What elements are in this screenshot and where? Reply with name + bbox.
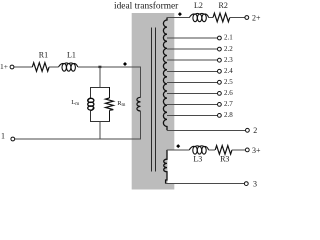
svg-text:3+: 3+ — [252, 146, 261, 155]
terminal 1+ circle — [10, 65, 14, 69]
resistor R1 — [32, 63, 49, 72]
wire: 1+ terminal to R1 — [14, 66, 32, 68]
svg-text:1: 1 — [1, 132, 5, 141]
inductor Lm — [88, 98, 94, 110]
tap 2.3 — [167, 56, 233, 64]
wire: W2 top to L2 — [167, 17, 189, 19]
svg-text:2.6: 2.6 — [224, 89, 233, 97]
terminal 2+ circle — [245, 16, 249, 20]
svg-text:2.3: 2.3 — [224, 56, 233, 64]
svg-text:Rm: Rm — [117, 100, 125, 108]
shunt bottom bar — [90, 121, 110, 123]
resistor Rm — [106, 87, 114, 122]
svg-text:R2: R2 — [219, 1, 228, 10]
svg-text:2.2: 2.2 — [224, 45, 233, 53]
resistor R2 — [213, 13, 230, 22]
inductor L1 — [59, 63, 78, 71]
phase dot W2 — [178, 12, 182, 16]
primary winding lead top — [140, 67, 142, 98]
svg-text:L3: L3 — [193, 155, 202, 164]
wire: L3 to R3 — [209, 149, 216, 151]
shunt top bar — [90, 87, 110, 89]
wire: R2 to terminal 2+ — [230, 17, 246, 19]
svg-text:2.5: 2.5 — [224, 78, 233, 86]
Lm branch upper lead — [89, 87, 91, 98]
svg-text:R1: R1 — [39, 51, 48, 60]
svg-text:2+: 2+ — [252, 13, 261, 22]
svg-text:ideal transformer: ideal transformer — [114, 0, 179, 11]
core line right — [154, 28, 156, 172]
primary winding W1 — [137, 97, 141, 111]
inductor L3 — [189, 146, 208, 154]
core line left — [150, 28, 152, 172]
tap 2.8 — [167, 111, 233, 119]
inductor L2 — [189, 13, 208, 21]
winding W3 white backing — [168, 150, 176, 183]
junction A — [98, 66, 101, 68]
svg-text:2.8: 2.8 — [224, 111, 233, 119]
phase dot primary — [123, 62, 127, 66]
wire: W3 bottom to terminal 3 — [166, 183, 245, 185]
terminal 1 circle — [11, 137, 15, 141]
svg-text:Lm: Lm — [71, 99, 79, 107]
wire: R1 to L1 — [49, 66, 58, 68]
primary winding lead bottom — [140, 111, 142, 139]
svg-text:3: 3 — [253, 180, 257, 189]
tap 2.6 — [167, 89, 233, 97]
phase dot W3 — [176, 144, 180, 148]
svg-text:L1: L1 — [67, 51, 76, 60]
terminal 2 circle — [246, 128, 250, 132]
tap 2.4 — [167, 67, 233, 75]
terminal 3+ circle — [245, 148, 249, 152]
svg-text:1+: 1+ — [0, 62, 8, 71]
tap 2.5 — [167, 78, 233, 86]
svg-text:2.4: 2.4 — [224, 67, 233, 75]
shunt branch feed wire top — [99, 67, 101, 88]
wire: bottom return to terminal 1 — [15, 138, 141, 140]
wire: L2 to R2 — [209, 17, 213, 19]
resistor R3 — [215, 146, 232, 155]
svg-text:2.7: 2.7 — [224, 100, 233, 108]
wire: W3 top to L3 — [167, 149, 189, 151]
terminal 3 circle — [244, 182, 248, 186]
wire: R3 to terminal 3+ — [232, 149, 245, 151]
wire: W2 bottom to terminal 2 — [167, 129, 246, 131]
tap 2.7 — [167, 100, 233, 108]
winding W3 — [164, 150, 167, 184]
tap 2.2 — [167, 45, 233, 53]
shunt branch feed wire bottom — [99, 122, 101, 139]
tap 2.1 — [167, 34, 233, 42]
svg-text:2: 2 — [253, 126, 257, 135]
wire: L1 to primary — [78, 66, 141, 68]
transformer body (gray box) — [132, 13, 175, 190]
svg-text:2.1: 2.1 — [224, 34, 233, 42]
Lm branch lower lead — [89, 111, 91, 123]
winding W2 (secondary with taps) — [163, 18, 167, 131]
svg-text:R3: R3 — [220, 155, 229, 164]
svg-text:L2: L2 — [194, 1, 203, 10]
